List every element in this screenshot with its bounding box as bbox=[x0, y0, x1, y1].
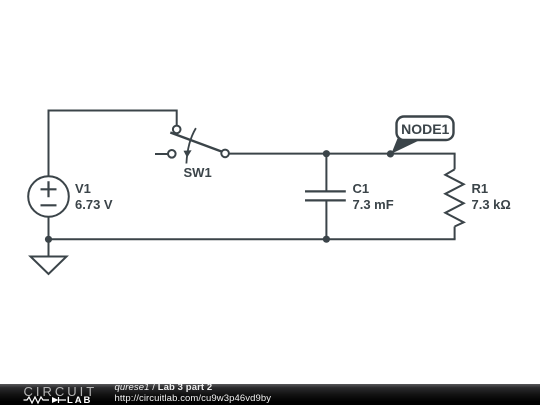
svg-text:C1: C1 bbox=[353, 181, 370, 196]
wire bbox=[48, 217, 50, 257]
ground bbox=[31, 257, 67, 275]
wire bbox=[454, 154, 456, 169]
wire bbox=[49, 111, 177, 177]
svg-text:SW1: SW1 bbox=[184, 165, 212, 180]
footer url text bbox=[115, 394, 272, 404]
svg-text:NODE1: NODE1 bbox=[401, 121, 449, 137]
CircuitLab logo bbox=[0, 384, 100, 405]
node junction dot bbox=[323, 236, 330, 243]
wire bbox=[155, 153, 168, 155]
wire bbox=[325, 154, 327, 240]
node NODE1 bbox=[387, 117, 454, 158]
footer bar bbox=[0, 384, 540, 405]
capacitor C1 bbox=[305, 181, 394, 212]
svg-text:7.3 mF: 7.3 mF bbox=[353, 197, 394, 212]
svg-text:LAB: LAB bbox=[67, 395, 92, 405]
voltage source V1 bbox=[28, 176, 113, 217]
wire bbox=[49, 238, 456, 240]
svg-text:V1: V1 bbox=[75, 181, 91, 196]
wire bbox=[454, 227, 456, 240]
switch SW1 bbox=[168, 126, 229, 180]
svg-text:7.3 kΩ: 7.3 kΩ bbox=[472, 197, 511, 212]
svg-text:6.73 V: 6.73 V bbox=[75, 197, 113, 212]
footer title text bbox=[115, 383, 213, 393]
wire bbox=[229, 153, 456, 155]
node junction dot bbox=[323, 150, 330, 157]
node junction dot bbox=[45, 236, 52, 243]
resistor R1 bbox=[445, 169, 511, 226]
svg-text:R1: R1 bbox=[472, 181, 489, 196]
